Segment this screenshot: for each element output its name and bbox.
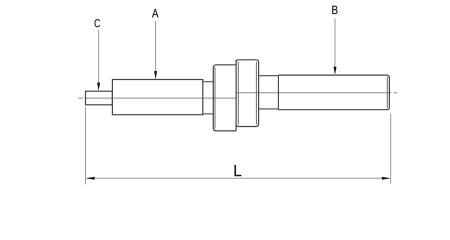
leader line C [98,30,100,83]
flange ring 2 (larger chamfered collar) [236,60,259,127]
dimension arrowhead left [86,177,95,180]
dimension arrowhead right [382,177,391,180]
label B [332,6,337,14]
shaft tip section C (small pilot diameter) [86,91,113,105]
dimension line L [87,177,390,179]
B end chamfer edge line [386,77,388,108]
junction line neck / cylinder B [277,75,279,110]
extension line right (from B end) [390,114,392,184]
leader line B [334,19,336,68]
ring 2 right chamfer edge line [255,62,257,125]
centerline right (axis of shank B side) [236,92,397,94]
label L [235,165,242,176]
cylinder section B (long shank, rounded end) [278,75,389,110]
centerline left (axis of arbor left side) [78,97,236,99]
neck between ring 2 and cylinder B [259,76,279,109]
leader line A [155,21,157,72]
ring 1 chamfer edge line [214,67,216,129]
extension line left (from C tip) [85,107,87,184]
relief neck between A and flange ring 1 [203,82,214,114]
shared edge ring1 / ring2 [235,60,237,131]
ring 2 left chamfer edge line [237,62,239,125]
flange ring 1 (chamfered collar) [213,65,236,131]
label C [95,19,101,27]
label A [152,9,158,17]
cylinder section A (large body) [112,80,202,115]
arrowhead A [154,71,157,79]
arrowhead C [97,83,100,91]
arrowhead B [334,67,337,75]
